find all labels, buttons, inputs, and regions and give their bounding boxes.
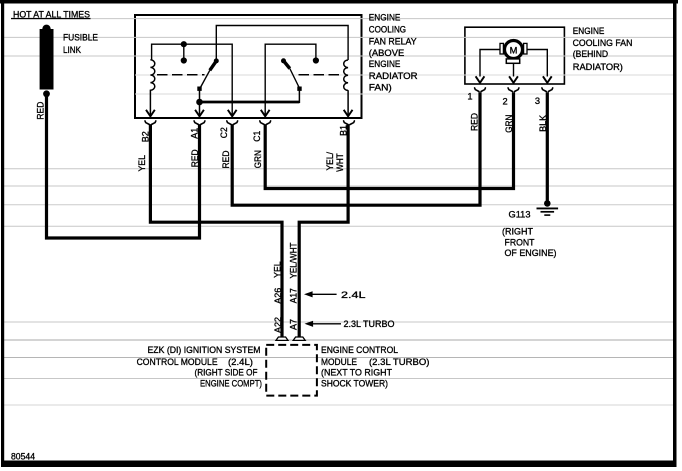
arrow fan pin1: [476, 76, 485, 83]
svg-text:G113: G113: [509, 210, 531, 220]
contact stub dot left switch: [183, 44, 185, 58]
svg-text:RADIATOR): RADIATOR): [573, 62, 623, 72]
relay box outline: [135, 15, 362, 118]
svg-text:ENGINE COMPT): ENGINE COMPT): [200, 378, 262, 388]
svg-text:ENGINE: ENGINE: [369, 59, 401, 69]
motor M1 wires: [480, 50, 501, 77]
svg-text:GRN: GRN: [504, 115, 514, 133]
svg-text:MODULE: MODULE: [321, 357, 357, 367]
svg-text:(RIGHT SIDE OF: (RIGHT SIDE OF: [195, 368, 258, 378]
svg-text:COOLING FAN: COOLING FAN: [573, 38, 633, 48]
svg-text:(RIGHT: (RIGHT: [502, 226, 533, 236]
svg-text:FUSIBLE: FUSIBLE: [63, 33, 98, 43]
svg-text:EZK (DI) IGNITION SYSTEM: EZK (DI) IGNITION SYSTEM: [148, 345, 261, 355]
svg-text:RED: RED: [35, 101, 45, 119]
mech link dashes left: [157, 74, 205, 76]
svg-text:C2: C2: [219, 127, 229, 138]
svg-text:C1: C1: [252, 131, 262, 142]
svg-text:(2.3L TURBO): (2.3L TURBO): [369, 357, 430, 367]
svg-text:(NEXT TO RIGHT: (NEXT TO RIGHT: [321, 368, 392, 378]
svg-text:ENGINE: ENGINE: [573, 26, 605, 36]
terminal A26/A22 at module: [276, 337, 288, 340]
arrow B1: [344, 110, 353, 117]
wire YEL B2 to module A26: [150, 124, 282, 336]
connector fan 1: [475, 88, 486, 92]
wire H1 pivot to right coil: [216, 26, 348, 62]
switch SW1 arm: [214, 58, 219, 63]
wire SW2 contact to bus: [298, 89, 300, 104]
svg-text:A22: A22: [273, 317, 283, 333]
wire RED A1 to fusible link: [47, 94, 200, 238]
arrow B2: [146, 110, 155, 117]
switch SW2 arm: [281, 58, 286, 63]
svg-text:SHOCK TOWER): SHOCK TOWER): [321, 378, 388, 388]
svg-text:2.4L: 2.4L: [341, 290, 366, 300]
svg-text:OF ENGINE): OF ENGINE): [505, 248, 557, 258]
arrow fan pin2: [509, 76, 518, 83]
svg-text:YEL: YEL: [273, 261, 283, 278]
mech link dashes right: [299, 74, 344, 76]
svg-text:A17: A17: [288, 288, 298, 303]
relay coil K1 left: [150, 60, 154, 90]
wire YEL/WHT B1 to module A17: [299, 124, 348, 336]
svg-text:CONTROL MODULE: CONTROL MODULE: [137, 357, 218, 367]
wire coil bottom to B2 arrow: [149, 90, 151, 115]
svg-text:ENGINE: ENGINE: [369, 13, 401, 23]
svg-text:HOT AT ALL TIMES: HOT AT ALL TIMES: [13, 9, 90, 19]
contact stub dot right switch: [313, 57, 319, 63]
arrow A1: [195, 110, 204, 117]
fan box outline: [465, 27, 565, 84]
arrow fan pin3: [543, 76, 552, 83]
junction dot on H2: [181, 41, 187, 47]
pointer 2.4L: [304, 290, 366, 300]
svg-text:RADIATOR: RADIATOR: [369, 71, 418, 81]
svg-text:2.3L TURBO: 2.3L TURBO: [344, 319, 395, 329]
svg-text:RED: RED: [221, 150, 231, 168]
connector C1: [260, 121, 271, 125]
connector fan 2: [508, 88, 519, 92]
wire C1 up to H4: [265, 44, 316, 115]
wire BLK fan pin 3 to ground: [546, 92, 549, 200]
svg-text:YEL/: YEL/: [325, 152, 335, 171]
arrow C2: [228, 110, 237, 117]
frame border top: [0, 0, 678, 4]
label FUSIBLE LINK: [63, 33, 98, 55]
motor M1: [500, 41, 527, 64]
label G113 (RIGHT FRONT OF ENGINE): [502, 210, 557, 258]
wire RED C2 to fan pin 1: [232, 92, 480, 205]
svg-text:RED: RED: [470, 113, 480, 131]
svg-text:YEL/WHT: YEL/WHT: [288, 242, 298, 278]
fan label ENGINE COOLING FAN (BEHIND RADIATOR): [573, 26, 633, 72]
wire coil top to H2: [152, 44, 233, 115]
junction dot A1 bus: [196, 99, 203, 106]
wire GRN C1 to fan pin 2: [265, 92, 513, 188]
module dashed box: [266, 345, 317, 396]
connector A1: [194, 121, 205, 125]
wire SW1 to A1 arrow: [199, 89, 201, 116]
thick bus H3: [200, 101, 300, 104]
svg-text:A7: A7: [288, 319, 298, 330]
svg-text:BLK: BLK: [538, 114, 548, 132]
fusible link F1: [40, 25, 54, 98]
wire coil K2 bottom to B1 arrow: [347, 90, 349, 115]
svg-text:(BEHIND: (BEHIND: [573, 49, 609, 59]
module label EZK (DI) IGNITION SYSTEM CONTROL MODULE (2.4L) (RIGHT SIDE OF ENGINE COMPT): [137, 345, 262, 388]
svg-text:1: 1: [467, 92, 472, 102]
frame border left: [1, 0, 4, 467]
svg-text:LINK: LINK: [63, 45, 82, 55]
relay label ENGINE COOLING FAN RELAY (ABOVE ENGINE RADIATOR FAN): [369, 13, 418, 93]
svg-text:80544: 80544: [11, 452, 35, 462]
svg-text:FAN): FAN): [369, 82, 392, 92]
svg-text:2: 2: [503, 97, 508, 107]
connector fan 3: [542, 88, 553, 92]
svg-text:YEL: YEL: [137, 155, 147, 172]
svg-text:(2.4L): (2.4L): [228, 357, 253, 367]
svg-text:FRONT: FRONT: [505, 237, 535, 247]
connector B2: [145, 121, 156, 125]
relay coil K2 right: [344, 60, 348, 90]
frame border bottom: [1, 461, 677, 468]
svg-text:WHT: WHT: [335, 153, 345, 172]
connector B1: [344, 121, 355, 125]
svg-text:M: M: [510, 46, 518, 56]
svg-text:ENGINE CONTROL: ENGINE CONTROL: [321, 345, 398, 355]
svg-text:3: 3: [535, 96, 540, 106]
svg-text:GRN: GRN: [253, 150, 263, 168]
svg-text:COOLING: COOLING: [369, 24, 406, 34]
connector C2: [227, 121, 238, 125]
terminal A17/A7 at module: [293, 337, 305, 340]
svg-text:A26: A26: [273, 288, 283, 304]
module label ENGINE CONTROL MODULE (2.3L TURBO) (NEXT TO RIGHT SHOCK TOWER): [321, 345, 430, 388]
ground G113: [537, 200, 559, 215]
svg-text:FAN RELAY: FAN RELAY: [369, 36, 417, 46]
arrow C1: [261, 110, 270, 117]
svg-text:(ABOVE: (ABOVE: [369, 48, 404, 58]
wire color YEL/WHT at B1: [325, 152, 345, 172]
frame border right: [673, 0, 677, 467]
pointer 2.3L TURBO: [305, 319, 395, 329]
